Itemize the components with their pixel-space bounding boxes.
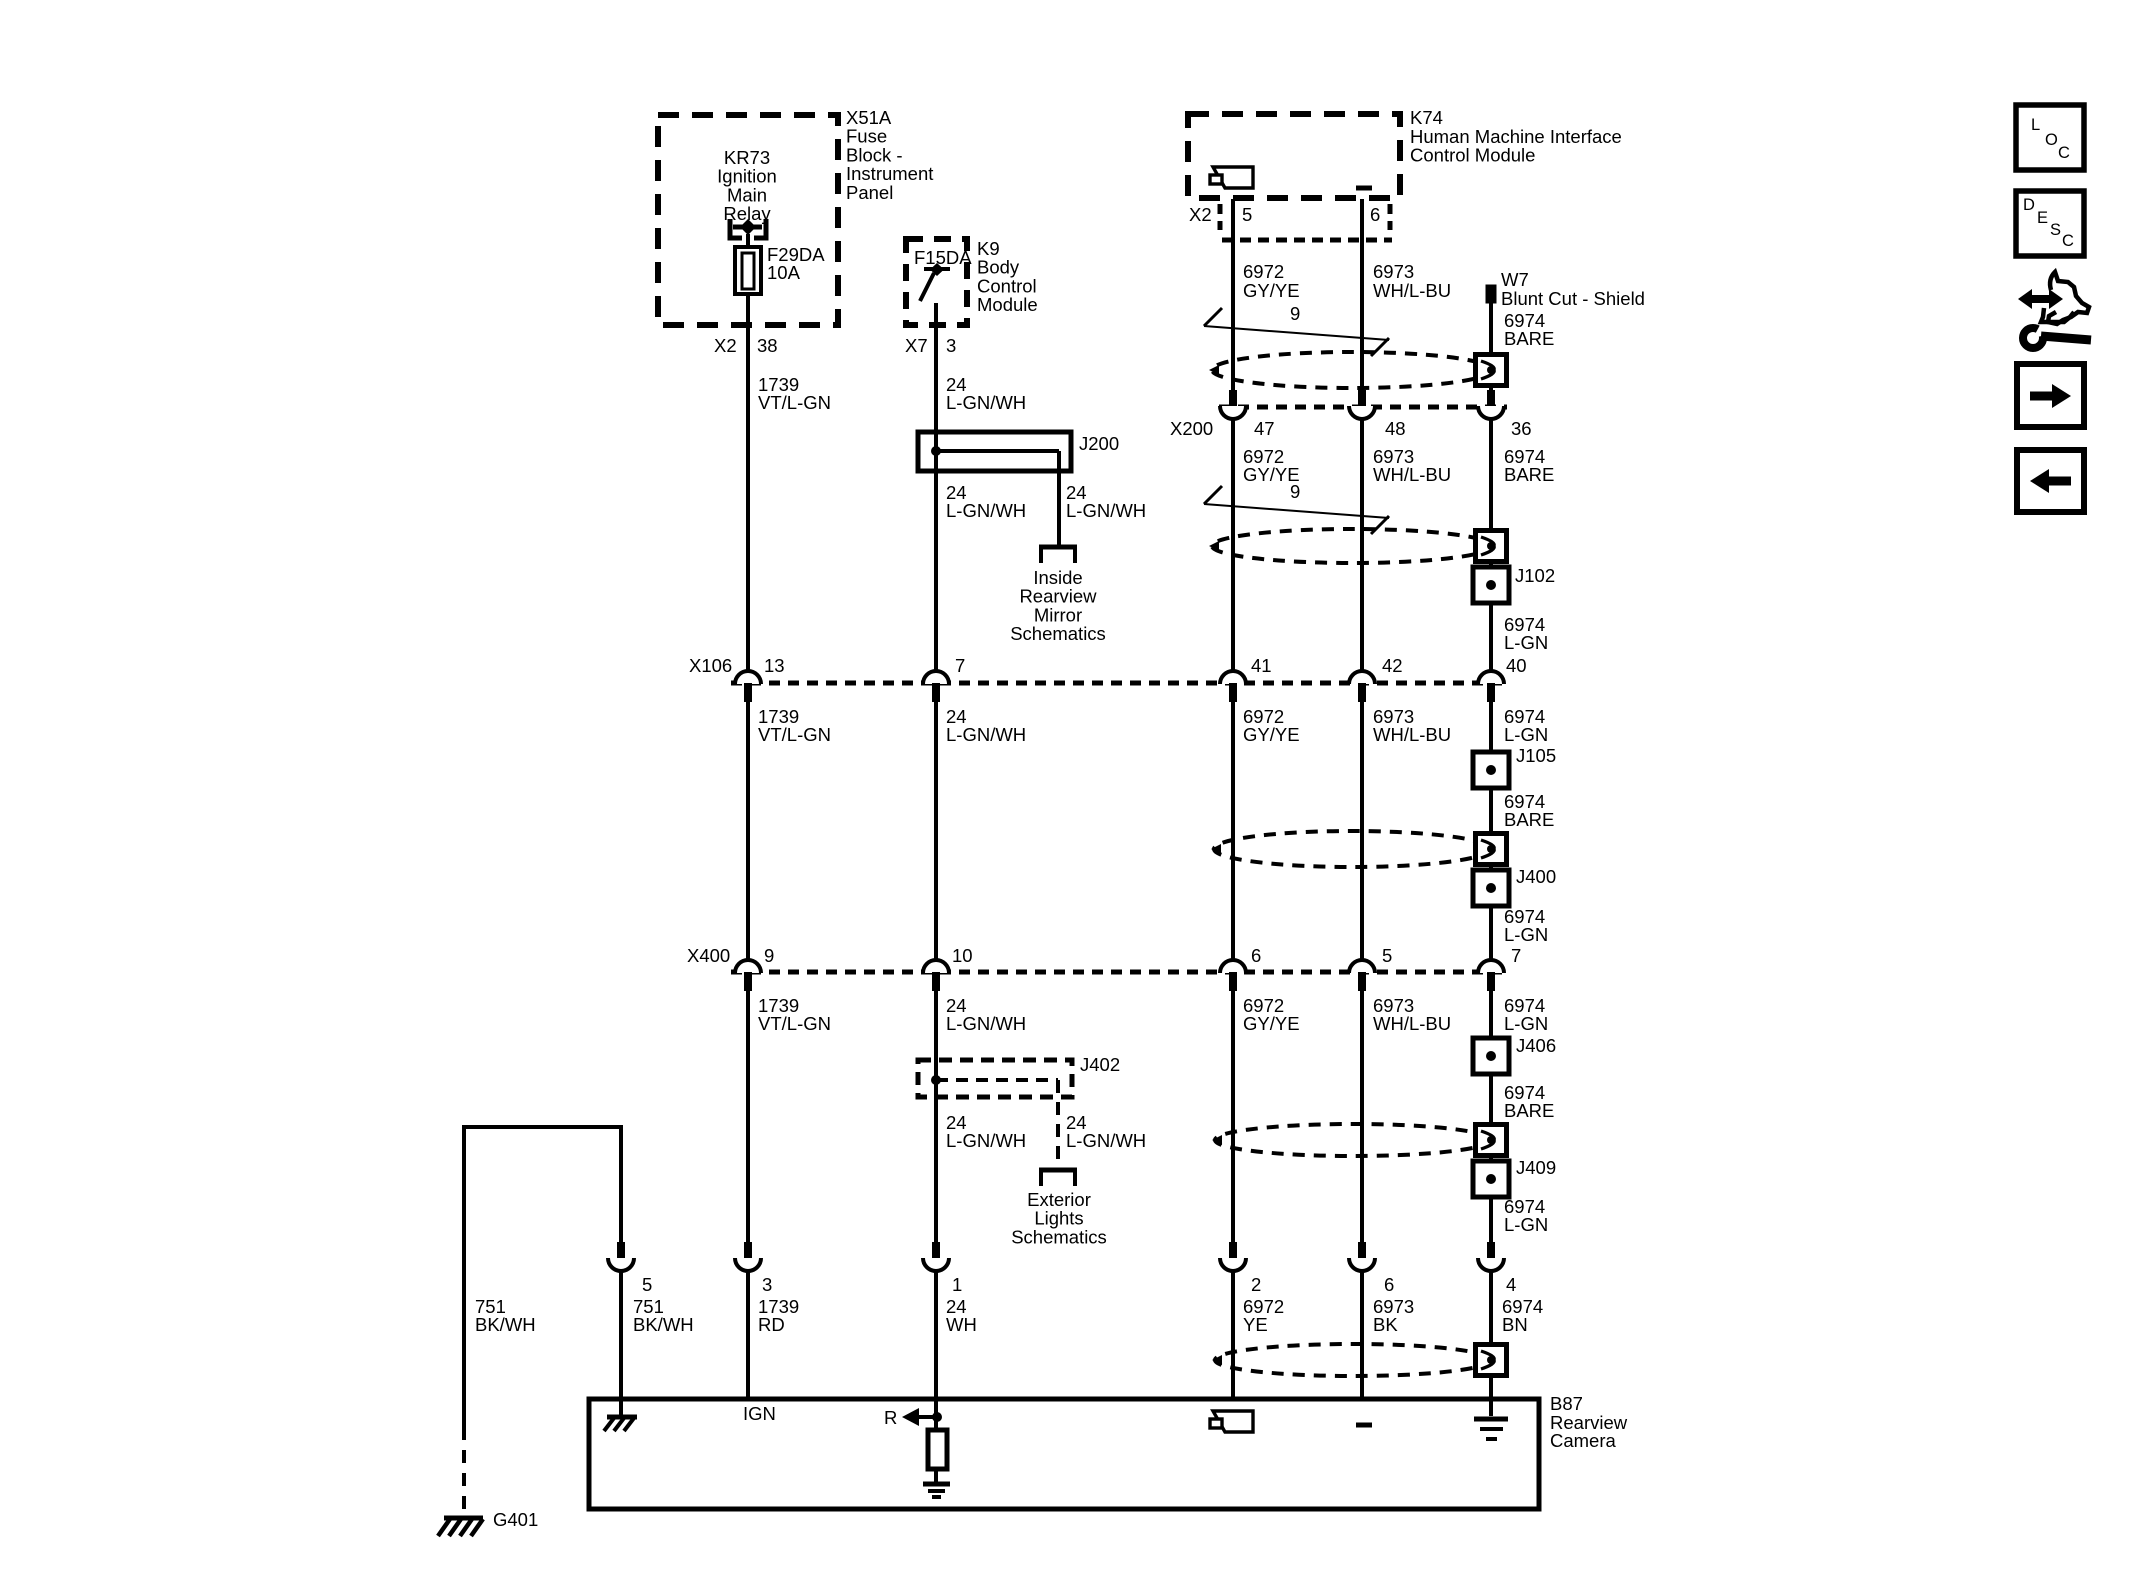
svg-text:X7: X7 bbox=[905, 335, 928, 356]
svg-text:O: O bbox=[2045, 131, 2058, 149]
svg-text:BK/WH: BK/WH bbox=[633, 1314, 694, 1335]
svg-text:3: 3 bbox=[946, 335, 956, 356]
svg-text:L-GN: L-GN bbox=[1504, 1214, 1548, 1235]
svg-text:36: 36 bbox=[1511, 418, 1532, 439]
svg-text:7: 7 bbox=[955, 655, 965, 676]
svg-text:6: 6 bbox=[1384, 1274, 1394, 1295]
svg-text:BARE: BARE bbox=[1504, 809, 1554, 830]
svg-text:L-GN/WH: L-GN/WH bbox=[946, 392, 1026, 413]
svg-text:L-GN/WH: L-GN/WH bbox=[946, 1013, 1026, 1034]
svg-text:48: 48 bbox=[1385, 418, 1406, 439]
svg-text:42: 42 bbox=[1382, 655, 1403, 676]
svg-text:Schematics: Schematics bbox=[1011, 1226, 1107, 1247]
svg-text:BK/WH: BK/WH bbox=[475, 1314, 536, 1335]
svg-text:E: E bbox=[2037, 209, 2048, 227]
svg-text:GY/YE: GY/YE bbox=[1243, 1013, 1300, 1034]
svg-text:VT/L-GN: VT/L-GN bbox=[758, 724, 831, 745]
svg-text:J402: J402 bbox=[1080, 1054, 1120, 1075]
svg-text:L-GN/WH: L-GN/WH bbox=[1066, 1130, 1146, 1151]
svg-text:G401: G401 bbox=[493, 1509, 538, 1530]
svg-text:6: 6 bbox=[1251, 945, 1261, 966]
svg-text:C: C bbox=[2062, 232, 2074, 250]
svg-text:Blunt Cut - Shield: Blunt Cut - Shield bbox=[1501, 288, 1645, 309]
svg-text:X2: X2 bbox=[1189, 204, 1212, 225]
svg-text:L-GN/WH: L-GN/WH bbox=[1066, 500, 1146, 521]
svg-text:K74: K74 bbox=[1410, 107, 1443, 128]
svg-text:10: 10 bbox=[952, 945, 973, 966]
svg-text:10A: 10A bbox=[767, 262, 801, 283]
svg-text:J102: J102 bbox=[1515, 565, 1555, 586]
svg-text:GY/YE: GY/YE bbox=[1243, 280, 1300, 301]
svg-text:BK: BK bbox=[1373, 1314, 1398, 1335]
svg-text:WH/L-BU: WH/L-BU bbox=[1373, 1013, 1451, 1034]
svg-text:VT/L-GN: VT/L-GN bbox=[758, 1013, 831, 1034]
svg-text:WH/L-BU: WH/L-BU bbox=[1373, 280, 1451, 301]
svg-text:L-GN: L-GN bbox=[1504, 1013, 1548, 1034]
svg-text:X106: X106 bbox=[689, 655, 732, 676]
svg-text:L-GN: L-GN bbox=[1504, 924, 1548, 945]
svg-text:J400: J400 bbox=[1516, 866, 1556, 887]
svg-text:BARE: BARE bbox=[1504, 1100, 1554, 1121]
svg-text:C: C bbox=[2058, 144, 2070, 162]
svg-text:RD: RD bbox=[758, 1314, 785, 1335]
svg-text:X2: X2 bbox=[714, 335, 737, 356]
svg-text:BARE: BARE bbox=[1504, 464, 1554, 485]
svg-text:F15DA: F15DA bbox=[914, 247, 972, 268]
svg-text:5: 5 bbox=[1242, 204, 1252, 225]
svg-text:Camera: Camera bbox=[1550, 1430, 1617, 1451]
svg-text:40: 40 bbox=[1506, 655, 1527, 676]
svg-text:J409: J409 bbox=[1516, 1157, 1556, 1178]
svg-text:J200: J200 bbox=[1079, 433, 1119, 454]
svg-text:Relay: Relay bbox=[723, 203, 771, 224]
svg-text:L: L bbox=[2031, 116, 2040, 134]
svg-text:L-GN: L-GN bbox=[1504, 632, 1548, 653]
svg-text:VT/L-GN: VT/L-GN bbox=[758, 392, 831, 413]
svg-text:9: 9 bbox=[1290, 303, 1300, 324]
svg-text:6972: 6972 bbox=[1243, 261, 1284, 282]
svg-text:4: 4 bbox=[1506, 1274, 1516, 1295]
svg-text:X200: X200 bbox=[1170, 418, 1213, 439]
svg-text:Schematics: Schematics bbox=[1010, 623, 1106, 644]
svg-text:J406: J406 bbox=[1516, 1035, 1556, 1056]
svg-text:7: 7 bbox=[1511, 945, 1521, 966]
svg-text:41: 41 bbox=[1251, 655, 1272, 676]
svg-text:GY/YE: GY/YE bbox=[1243, 724, 1300, 745]
svg-text:47: 47 bbox=[1254, 418, 1275, 439]
svg-text:J105: J105 bbox=[1516, 745, 1556, 766]
svg-text:5: 5 bbox=[642, 1274, 652, 1295]
svg-text:6: 6 bbox=[1370, 204, 1380, 225]
svg-text:R: R bbox=[884, 1407, 897, 1428]
svg-text:B87: B87 bbox=[1550, 1393, 1583, 1414]
svg-text:L-GN/WH: L-GN/WH bbox=[946, 1130, 1026, 1151]
svg-text:GY/YE: GY/YE bbox=[1243, 464, 1300, 485]
svg-text:BARE: BARE bbox=[1504, 328, 1554, 349]
svg-text:D: D bbox=[2023, 196, 2035, 214]
svg-text:X400: X400 bbox=[687, 945, 730, 966]
svg-text:L-GN/WH: L-GN/WH bbox=[946, 500, 1026, 521]
svg-text:9: 9 bbox=[764, 945, 774, 966]
svg-text:L-GN/WH: L-GN/WH bbox=[946, 724, 1026, 745]
svg-text:YE: YE bbox=[1243, 1314, 1268, 1335]
svg-text:13: 13 bbox=[764, 655, 785, 676]
svg-text:WH: WH bbox=[946, 1314, 977, 1335]
svg-text:BN: BN bbox=[1502, 1314, 1528, 1335]
svg-text:Panel: Panel bbox=[846, 182, 893, 203]
svg-text:2: 2 bbox=[1251, 1274, 1261, 1295]
svg-text:38: 38 bbox=[757, 335, 778, 356]
svg-text:S: S bbox=[2050, 221, 2061, 239]
svg-text:WH/L-BU: WH/L-BU bbox=[1373, 724, 1451, 745]
svg-text:5: 5 bbox=[1382, 945, 1392, 966]
svg-text:WH/L-BU: WH/L-BU bbox=[1373, 464, 1451, 485]
svg-text:3: 3 bbox=[762, 1274, 772, 1295]
svg-text:6973: 6973 bbox=[1373, 261, 1414, 282]
svg-text:1: 1 bbox=[952, 1274, 962, 1295]
svg-text:IGN: IGN bbox=[743, 1403, 776, 1424]
svg-text:Control Module: Control Module bbox=[1410, 145, 1535, 166]
svg-text:Module: Module bbox=[977, 294, 1038, 315]
svg-text:L-GN: L-GN bbox=[1504, 724, 1548, 745]
svg-text:W7: W7 bbox=[1501, 269, 1529, 290]
